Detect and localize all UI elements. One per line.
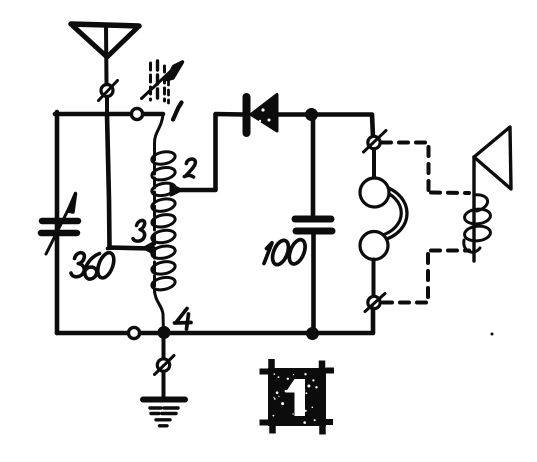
label: tap 1 (173, 103, 182, 120)
wire: plug to ground (162, 372, 166, 397)
variable capacitor C1 (41, 194, 78, 255)
earpiece coil (464, 195, 491, 252)
terminal: open circle on top bus (131, 108, 142, 119)
antenna W1 (71, 24, 139, 84)
junction: coil tap 2 (171, 185, 181, 195)
figure number plate 1 (260, 359, 335, 435)
wire: left vertical branch (55, 112, 60, 333)
counterpoise arrow mark (142, 61, 183, 103)
label: tap 3 (133, 220, 145, 241)
inductor L1 (tapped tuning coil) (151, 114, 176, 333)
connector: headphones top jack X2 (364, 131, 387, 153)
label: tap 4 (175, 309, 192, 330)
antenna plug connector X1 (99, 81, 118, 101)
wire: top horizontal bus (node 1) (55, 112, 163, 117)
wire: bottom horizontal bus (node 4) (57, 309, 373, 334)
connector: headphones bottom jack X3 (365, 294, 385, 312)
label: 360 (C1 value) (71, 248, 121, 281)
label: 100 (C2 value) (264, 237, 308, 267)
wire: antenna line down to coil tap 3 (107, 114, 150, 249)
earpiece BF2 (horn) (474, 127, 511, 261)
headphones BF1 (360, 178, 407, 260)
speck (491, 333, 494, 336)
diode VD1 (detector) (247, 95, 278, 134)
terminal: open circle on bottom bus (128, 327, 139, 338)
junction: coil tap 3 (144, 243, 153, 253)
wire: antenna stem to tuned circuit (105, 97, 109, 114)
connector: ground plug X4 (155, 356, 175, 375)
junction: node at C2 top (306, 109, 318, 121)
wire: jack to headphones (372, 149, 376, 179)
capacitor C2 (295, 117, 332, 333)
ground symbol (143, 400, 185, 426)
label: tap 2 (184, 159, 195, 177)
junction: C2 bottom node (307, 328, 319, 340)
junction: coil tap 4 / ground node (158, 327, 170, 339)
wire: headphones to bottom jack (372, 260, 376, 297)
wire: ground branch (162, 333, 166, 358)
wire: diode to headphone branch (277, 115, 373, 138)
wire: tap 2 to detector branch (178, 114, 243, 190)
dashed cord: bottom jack to earpiece (383, 251, 469, 303)
dashed cord: top jack to earpiece (382, 143, 469, 194)
